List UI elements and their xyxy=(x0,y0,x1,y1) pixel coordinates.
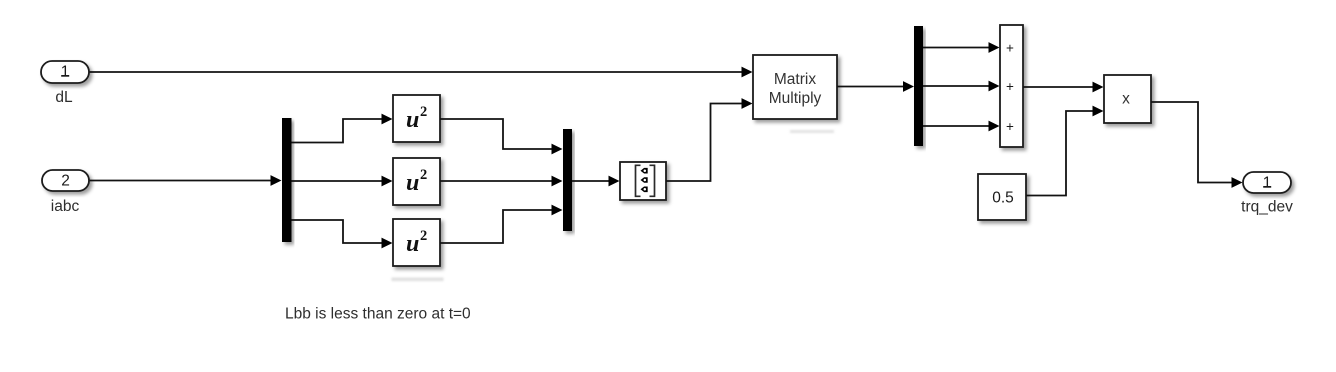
wire reshape to Matrix Multiply bottom input xyxy=(666,104,742,182)
wire sum to product top input xyxy=(1023,86,1093,88)
wire dL from Inport 1 to Matrix Multiply top input xyxy=(89,71,742,73)
wire iabc from Inport 2 to Mux1 xyxy=(89,180,271,182)
product block x xyxy=(1104,75,1151,123)
svg-text:u: u xyxy=(406,231,419,257)
wire bar3 bottom to sum xyxy=(923,125,989,127)
mux bar 2 xyxy=(563,129,572,231)
inport 1 (dL) xyxy=(41,61,89,83)
Matrix Multiply block xyxy=(753,55,837,119)
svg-text:2: 2 xyxy=(420,167,427,183)
svg-text:u: u xyxy=(406,170,419,196)
math function block u^2 bottom xyxy=(393,219,440,266)
reshape icon element 1 xyxy=(641,168,648,174)
demux bar 3 xyxy=(914,26,923,146)
sum block xyxy=(1000,25,1023,147)
svg-text:+: + xyxy=(1006,79,1014,94)
reshape icon element 2 xyxy=(641,177,648,183)
math function block u^2 middle xyxy=(393,158,440,205)
reshape icon right bracket xyxy=(650,165,655,196)
reshape icon element 3 xyxy=(641,187,648,193)
wire u2 bottom to mux2 xyxy=(440,210,552,243)
outport 1 (trq_dev) xyxy=(1243,172,1291,193)
reshape icon left bracket xyxy=(636,165,641,196)
svg-text:2: 2 xyxy=(420,104,427,120)
svg-text:dL: dL xyxy=(55,89,73,106)
wire constant to product bottom input xyxy=(1026,111,1093,196)
svg-text:2: 2 xyxy=(61,173,70,190)
svg-text:u: u xyxy=(406,107,419,133)
svg-text:x: x xyxy=(1122,91,1130,108)
svg-text:1: 1 xyxy=(1263,175,1272,192)
mux demux bar 1 xyxy=(282,118,292,242)
svg-text:Lbb is less than zero at t=0: Lbb is less than zero at t=0 xyxy=(285,306,471,323)
wire bar1 top to u2 top xyxy=(292,119,383,143)
wire bar3 middle to sum xyxy=(923,85,989,87)
constant block 0.5 xyxy=(978,174,1026,220)
wire bar3 top to sum xyxy=(923,47,989,49)
wire bar1 middle to u2 middle xyxy=(292,180,383,182)
wire u2 middle to mux2 xyxy=(440,180,552,182)
svg-text:1: 1 xyxy=(61,64,70,81)
wire Matrix Multiply to demux bar3 xyxy=(837,86,903,88)
svg-text:+: + xyxy=(1006,41,1014,56)
svg-text:0.5: 0.5 xyxy=(992,190,1014,207)
wire bar1 bottom to u2 bottom xyxy=(292,220,383,243)
svg-text:Matrix: Matrix xyxy=(774,71,816,88)
wire mux2 to reshape xyxy=(572,180,609,182)
svg-text:+: + xyxy=(1006,119,1014,134)
wire u2 top to mux2 xyxy=(440,119,552,149)
svg-text:trq_dev: trq_dev xyxy=(1241,199,1293,216)
wire product to outport xyxy=(1151,102,1232,183)
reshape block xyxy=(620,162,666,200)
inport 2 (iabc) xyxy=(42,170,89,191)
svg-text:2: 2 xyxy=(420,228,427,244)
math function block u^2 top xyxy=(393,95,440,142)
svg-text:iabc: iabc xyxy=(51,198,80,215)
svg-text:Multiply: Multiply xyxy=(769,90,822,107)
